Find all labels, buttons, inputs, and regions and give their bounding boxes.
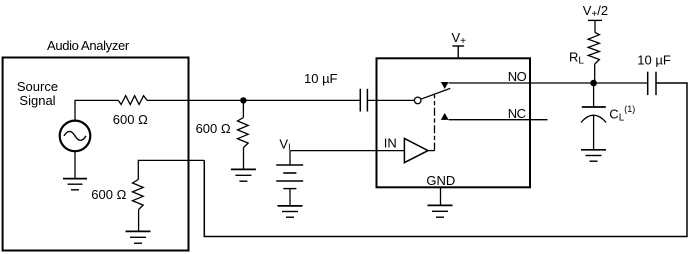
IC box bbox=[377, 58, 531, 187]
dashed control line bbox=[428, 95, 435, 151]
ground (IC GND) bbox=[428, 205, 453, 217]
wire return path bbox=[204, 83, 687, 237]
resistor 600 ohm inside analyzer bbox=[133, 180, 144, 232]
wire resistor to input cap bbox=[147, 99, 360, 101]
resistor R 600 ohm series bbox=[118, 96, 147, 105]
NC contact arrow bbox=[441, 113, 449, 120]
capacitor CL polarized bbox=[581, 83, 606, 150]
node junction dot bbox=[240, 97, 246, 103]
ground (VI) bbox=[278, 206, 303, 217]
svg-text:Signal: Signal bbox=[19, 93, 55, 108]
ground (analyzer resistor) bbox=[126, 231, 151, 243]
ground (source) bbox=[63, 179, 87, 190]
wire node to output cap bbox=[594, 82, 648, 84]
svg-text:600 Ω: 600 Ω bbox=[113, 112, 148, 127]
ground (CL) bbox=[581, 150, 606, 161]
source VI battery bbox=[276, 151, 303, 206]
svg-text:600 Ω: 600 Ω bbox=[91, 187, 126, 202]
capacitor 10uF input bbox=[360, 89, 367, 112]
audio analyzer box bbox=[3, 58, 189, 251]
wire source top bbox=[75, 100, 118, 120]
svg-text:NO: NO bbox=[508, 69, 527, 84]
svg-text:600 Ω: 600 Ω bbox=[196, 121, 231, 136]
svg-text:GND: GND bbox=[426, 173, 455, 188]
svg-text:10 µF: 10 µF bbox=[304, 71, 338, 86]
svg-text:10 µF: 10 µF bbox=[637, 52, 671, 67]
terminal V+ bbox=[452, 46, 464, 57]
switch pole circle bbox=[414, 97, 421, 104]
wire IN bbox=[290, 150, 404, 152]
svg-text:NC: NC bbox=[508, 106, 526, 121]
svg-text:IN: IN bbox=[384, 135, 397, 150]
NO contact arrow bbox=[441, 82, 449, 89]
ground (shunt resistor) bbox=[231, 169, 256, 181]
terminal V+/2 bbox=[588, 20, 602, 32]
resistor 600 ohm shunt at node bbox=[238, 100, 249, 169]
buffer driver triangle bbox=[404, 138, 428, 162]
svg-text:Audio Analyzer: Audio Analyzer bbox=[47, 38, 130, 53]
source sine generator bbox=[60, 121, 91, 152]
wire NC bbox=[449, 119, 548, 121]
switch arm bbox=[421, 88, 451, 99]
resistor RL bbox=[588, 33, 599, 84]
node junction dot (RL output) bbox=[590, 80, 597, 87]
capacitor 10uF output bbox=[648, 72, 656, 95]
wire GND stem bbox=[440, 188, 442, 206]
wire NO bbox=[449, 82, 594, 84]
wire source bottom bbox=[74, 151, 76, 178]
svg-text:Source: Source bbox=[17, 79, 58, 94]
wire input cap to switch bbox=[367, 99, 414, 101]
wire return top (analyzer resistor to return line) bbox=[138, 160, 204, 179]
